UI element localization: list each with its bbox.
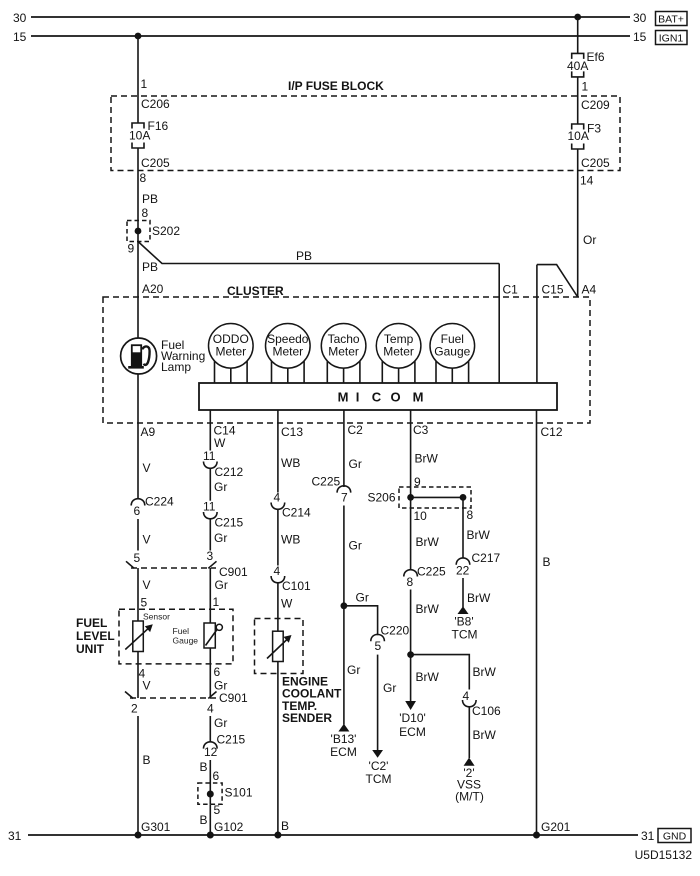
svg-text:12: 12 (204, 745, 218, 759)
cluster box (103, 297, 590, 423)
label BAT+ (656, 12, 688, 26)
ground G301 (135, 832, 142, 839)
svg-text:15: 15 (13, 30, 27, 44)
svg-text:S202: S202 (152, 224, 180, 238)
svg-text:C212: C212 (215, 465, 244, 479)
wire gauge to C901 row2 (209, 648, 211, 698)
svg-text:4: 4 (274, 491, 281, 505)
svg-text:8: 8 (407, 575, 414, 589)
svg-text:S206: S206 (368, 491, 396, 505)
off-page arrow B8 TCM (458, 606, 469, 614)
svg-text:40A: 40A (567, 59, 588, 73)
svg-text:ECM: ECM (399, 725, 426, 739)
wire S101 to G102 (209, 804, 211, 835)
svg-text:5: 5 (134, 551, 141, 565)
junction node (BrW split) (407, 651, 414, 658)
svg-text:Gr: Gr (215, 578, 228, 592)
svg-text:9: 9 (128, 242, 135, 256)
junction node (Gr split) (341, 602, 348, 609)
svg-text:C106: C106 (472, 704, 501, 718)
wire S206 pin8 to C217 (462, 497, 464, 558)
fuse F3 (572, 124, 584, 149)
svg-text:7: 7 (341, 491, 348, 505)
svg-text:C224: C224 (145, 495, 174, 509)
svg-text:(M/T): (M/T) (455, 790, 484, 804)
meter ODDO (209, 324, 254, 384)
svg-text:C15: C15 (542, 283, 564, 297)
ground G201 (533, 832, 540, 839)
svg-text:Or: Or (583, 233, 596, 247)
svg-text:C901: C901 (219, 691, 248, 705)
svg-text:TCM: TCM (366, 772, 392, 786)
svg-text:B: B (200, 813, 208, 827)
svg-text:10: 10 (414, 509, 428, 523)
wire C901 row2 to G301 (137, 716, 139, 835)
meter Temp (376, 324, 421, 384)
svg-text:BrW: BrW (416, 670, 440, 684)
svg-text:Gr: Gr (383, 681, 396, 695)
wire branch junction to C106 (411, 655, 470, 690)
svg-text:8: 8 (140, 171, 147, 185)
wire C1 drop into MICOM (498, 264, 500, 384)
svg-text:Fuel: Fuel (173, 626, 190, 636)
wire C212 to C215 (209, 468, 211, 500)
svg-text:B: B (200, 760, 208, 774)
svg-text:B: B (543, 555, 551, 569)
svg-text:S101: S101 (225, 786, 253, 800)
wire from rail 15 to fuse F16 (137, 36, 139, 123)
svg-text:WB: WB (281, 456, 300, 470)
svg-text:B: B (143, 753, 151, 767)
svg-text:6: 6 (214, 665, 221, 679)
wire C214 to C101 (277, 509, 279, 566)
svg-text:31: 31 (641, 829, 655, 843)
svg-text:U5D15132: U5D15132 (635, 848, 693, 862)
svg-text:C225: C225 (312, 475, 341, 489)
svg-text:Meter: Meter (328, 345, 359, 359)
svg-text:C205: C205 (141, 156, 170, 170)
svg-text:F16: F16 (148, 119, 169, 133)
wire C901 row2 to C215 (209, 716, 211, 743)
svg-text:C215: C215 (215, 516, 244, 530)
wire C101 to coolant sender (277, 583, 279, 632)
wire Ef6 feed from rail 30 (577, 17, 579, 53)
svg-text:1: 1 (141, 77, 148, 91)
svg-text:C206: C206 (141, 97, 170, 111)
wire from F16 to S202 (137, 148, 139, 221)
svg-text:B: B (281, 819, 289, 833)
wire MICOM to S206 (410, 410, 412, 497)
svg-text:C215: C215 (217, 733, 246, 747)
svg-text:11: 11 (203, 500, 216, 514)
off-page arrow 2 VSS (464, 758, 475, 766)
wire C220 to C2 TCM (377, 655, 379, 751)
wire lamp to A9 (137, 374, 139, 499)
wire S206 to C225 (410, 497, 412, 570)
connector C212 pin 11 (204, 462, 218, 469)
wire A4 jog to C15 (537, 265, 578, 297)
svg-text:6: 6 (134, 504, 141, 518)
wire C225 to junction (410, 590, 412, 655)
connector C101 pin 4 (271, 576, 285, 583)
meter Tacho (321, 324, 366, 384)
meter Speedo (266, 324, 311, 384)
svg-text:C12: C12 (541, 425, 563, 439)
svg-text:C901: C901 (219, 565, 248, 579)
connector C215 pin 12 (204, 742, 218, 749)
svg-text:A4: A4 (582, 283, 597, 297)
wire sensor to C901 row2 (137, 652, 139, 699)
svg-text:I/P FUSE BLOCK: I/P FUSE BLOCK (288, 79, 384, 93)
fuel gauge symbol (204, 623, 222, 648)
connector C901 row1 (126, 561, 217, 568)
svg-text:Meter: Meter (215, 345, 246, 359)
svg-text:C3: C3 (413, 423, 429, 437)
svg-text:C: C (372, 390, 382, 405)
svg-text:30: 30 (13, 11, 27, 25)
svg-text:CLUSTER: CLUSTER (227, 284, 284, 298)
fuel level unit box (119, 609, 233, 664)
splice S206 (399, 487, 471, 508)
svg-text:WB: WB (281, 533, 300, 547)
svg-text:Lamp: Lamp (161, 360, 191, 374)
svg-text:V: V (143, 578, 151, 592)
svg-text:Gr: Gr (214, 531, 227, 545)
svg-text:C209: C209 (581, 98, 610, 112)
svg-text:Gr: Gr (214, 716, 227, 730)
splice S202 (127, 221, 150, 242)
svg-text:1: 1 (213, 595, 220, 609)
svg-text:5: 5 (214, 803, 221, 817)
svg-text:M: M (413, 390, 424, 405)
svg-text:V: V (143, 461, 151, 475)
svg-text:'B13': 'B13' (331, 732, 357, 746)
splice S101 (198, 783, 222, 804)
svg-text:G102: G102 (214, 820, 244, 834)
svg-text:3: 3 (207, 549, 214, 563)
svg-text:UNIT: UNIT (76, 642, 105, 656)
svg-text:V: V (143, 679, 151, 693)
I/P fuse block box (111, 96, 620, 171)
label GND (658, 829, 691, 843)
svg-text:4: 4 (274, 564, 281, 578)
wire C215 to C901 (209, 519, 211, 551)
svg-text:ECM: ECM (330, 745, 357, 759)
svg-text:BAT+: BAT+ (658, 14, 684, 26)
junction on rail 15 at x=138 (135, 33, 142, 40)
svg-text:A9: A9 (141, 425, 156, 439)
connector C225 pin 7 (337, 486, 351, 493)
wire C15 drop into MICOM (536, 265, 538, 383)
connector C106 pin 4 (463, 700, 477, 707)
wire MICOM to C212 (209, 410, 211, 451)
wire branch to C220 (344, 606, 378, 635)
svg-text:BrW: BrW (416, 535, 440, 549)
svg-text:Gr: Gr (214, 480, 227, 494)
rail 15 (IGN1) (31, 35, 630, 37)
svg-text:BrW: BrW (415, 452, 439, 466)
wire S202 to fuel warning lamp (A20) (137, 242, 139, 339)
svg-text:'B8': 'B8' (454, 615, 473, 629)
svg-text:W: W (281, 597, 293, 611)
svg-text:30: 30 (633, 11, 647, 25)
wire sender to ground rail (277, 662, 279, 836)
svg-text:Gr: Gr (349, 539, 362, 553)
svg-text:'D10': 'D10' (399, 711, 426, 725)
svg-text:C225: C225 (417, 565, 446, 579)
svg-text:Gr: Gr (356, 591, 369, 605)
wire C215 to S101 (209, 760, 211, 783)
wire C217 to B8 TCM (462, 578, 464, 607)
wire MICOM to C225 (343, 410, 345, 487)
svg-text:C2: C2 (348, 423, 364, 437)
connector C224 pin 6 (131, 499, 145, 506)
svg-text:'C2': 'C2' (369, 759, 389, 773)
junction on rail 30 at x=577.7 (574, 14, 581, 21)
meter Fuel Gauge (430, 324, 475, 384)
svg-text:G201: G201 (541, 820, 571, 834)
svg-text:4: 4 (463, 689, 470, 703)
svg-text:Gauge: Gauge (434, 345, 470, 359)
svg-text:10A: 10A (129, 129, 150, 143)
engine coolant temp sender box (255, 619, 304, 674)
rail 30 (BAT+) (31, 16, 630, 18)
off-page arrow D10 ECM (405, 701, 416, 710)
svg-text:SENDER: SENDER (282, 711, 332, 725)
svg-text:C220: C220 (381, 624, 410, 638)
connector C215 pin 11 (204, 512, 218, 519)
wire F3 to cluster A4 (577, 149, 579, 297)
svg-text:Sensor: Sensor (143, 612, 170, 622)
svg-text:6: 6 (213, 769, 220, 783)
svg-text:8: 8 (467, 508, 474, 522)
fuel warning lamp (121, 338, 157, 374)
coolant sender variable resistor (267, 631, 292, 661)
svg-text:C101: C101 (282, 579, 311, 593)
svg-text:TCM: TCM (452, 628, 478, 642)
connector C901 row2 (125, 692, 217, 699)
wire C225 to junction (343, 506, 345, 606)
wire C224 to C901 (137, 519, 139, 551)
svg-text:8: 8 (142, 206, 149, 220)
svg-text:PB: PB (142, 260, 158, 274)
ground G102 (207, 832, 214, 839)
svg-text:C13: C13 (281, 425, 303, 439)
svg-text:Gr: Gr (347, 663, 360, 677)
svg-text:Gauge: Gauge (173, 636, 199, 646)
connector C217 pin 22 (456, 558, 470, 565)
sensor variable resistor (125, 621, 153, 652)
svg-text:BrW: BrW (473, 665, 497, 679)
svg-text:Ef6: Ef6 (587, 50, 605, 64)
svg-text:C1: C1 (503, 283, 519, 297)
svg-text:GND: GND (663, 831, 687, 843)
svg-text:1: 1 (582, 80, 589, 94)
connector C225 pin 8 (404, 570, 418, 577)
svg-text:O: O (390, 390, 400, 405)
svg-text:11: 11 (203, 449, 216, 463)
label IGN1 (656, 31, 688, 45)
svg-text:10A: 10A (568, 129, 589, 143)
ground rail 31 (28, 834, 638, 836)
svg-text:15: 15 (633, 30, 647, 44)
wire junction to D10 ECM (410, 655, 412, 702)
connector C220 pin 5 (371, 634, 385, 641)
svg-text:FUEL: FUEL (76, 616, 107, 630)
svg-text:22: 22 (456, 564, 470, 578)
svg-text:V: V (143, 533, 151, 547)
svg-text:31: 31 (8, 829, 22, 843)
svg-text:LEVEL: LEVEL (76, 629, 115, 643)
svg-text:PB: PB (142, 192, 158, 206)
off-page arrow B13 ECM (338, 724, 349, 732)
wire C106 to VSS (468, 707, 470, 758)
wire C901 to fuel gauge symbol (209, 568, 211, 623)
svg-text:14: 14 (580, 174, 594, 188)
svg-text:BrW: BrW (416, 602, 440, 616)
IC U MICOM (199, 383, 557, 410)
svg-text:C205: C205 (581, 156, 610, 170)
fuse F16 (132, 123, 144, 148)
svg-text:PB: PB (296, 249, 312, 263)
off-page arrow C2 TCM (372, 750, 383, 758)
wire C901 to fuel level sensor (137, 568, 139, 621)
wire branch S202 to C1 (diagonal + horizontal) (138, 242, 499, 264)
svg-text:C214: C214 (282, 506, 311, 520)
connector C214 pin 4 (271, 503, 285, 510)
svg-text:IGN1: IGN1 (659, 33, 684, 45)
fuse Ef6 (572, 53, 584, 77)
svg-text:4: 4 (207, 702, 214, 716)
svg-text:C217: C217 (472, 551, 501, 565)
svg-text:Meter: Meter (383, 345, 414, 359)
svg-text:BrW: BrW (467, 591, 491, 605)
svg-text:F3: F3 (587, 122, 601, 136)
svg-text:2: 2 (131, 702, 138, 716)
wire MICOM C12 to G201 (536, 410, 538, 835)
wire MICOM to C214 (277, 410, 279, 493)
svg-text:G301: G301 (141, 820, 171, 834)
wire Ef6 to F3 (577, 77, 579, 124)
svg-text:W: W (214, 436, 226, 450)
svg-text:A20: A20 (142, 282, 164, 296)
svg-text:Meter: Meter (272, 345, 303, 359)
svg-text:BrW: BrW (467, 528, 491, 542)
ground node (coolant sender B) (274, 832, 281, 839)
svg-text:M: M (338, 390, 349, 405)
svg-text:5: 5 (375, 639, 382, 653)
svg-text:5: 5 (141, 596, 148, 610)
svg-text:Gr: Gr (349, 457, 362, 471)
wire junction to B13 ECM (343, 606, 345, 725)
svg-text:I: I (356, 390, 360, 405)
svg-text:BrW: BrW (473, 728, 497, 742)
